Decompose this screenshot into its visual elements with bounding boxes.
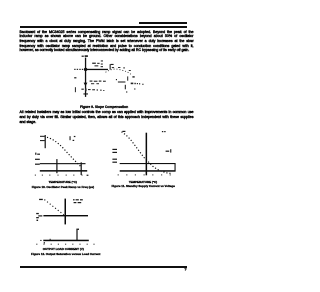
fig12 v2 top dot: [78, 229, 79, 230]
footer rule: [20, 266, 188, 268]
fig11 bottom axis: [120, 170, 176, 172]
fig11 dotted curve: [122, 132, 171, 174]
fig11 top-right dots: [162, 131, 166, 132]
fig12 left label marks: [36, 213, 39, 221]
ramp waveform sketch: [118, 67, 131, 71]
figure 9 slope compensation schematic: [0, 0, 207, 292]
node label 4.0V at top of vertical wire: [82, 55, 88, 57]
fig11 top-left dash: [122, 131, 125, 132]
fig11 x tick labels: [118, 174, 171, 175]
fig12 caption: [31, 252, 100, 256]
fig10 caption: [32, 185, 94, 189]
ramp input pin symbol: [110, 64, 115, 70]
value text row (2.4V etc.): [90, 81, 106, 85]
fig10 in-plot legend marks: [70, 136, 76, 141]
timing capacitor network: [116, 79, 127, 93]
graph figure 12: [0, 0, 207, 292]
fig12 vertical line v2: [76, 229, 77, 241]
node junction dot: [84, 68, 87, 71]
paragraph 2: [20, 110, 194, 124]
fig12 bottom axis: [43, 240, 89, 242]
capacitor label RT/CT: [127, 76, 143, 89]
fig12 below-axis dot: [44, 242, 45, 243]
fig10 inner horizontal gridline: [40, 163, 86, 164]
fig12 top-left dash: [39, 199, 43, 200]
fig11 inner horizontal gridline: [120, 163, 176, 164]
fig12 horizontal line: [43, 215, 88, 216]
fig10 x tick labels: [35, 175, 89, 176]
fig11 right edge tick: [175, 164, 176, 171]
page number 7: [0, 0, 207, 292]
fig10 vertical gridline v2: [81, 162, 82, 175]
graph figure 10: [0, 0, 207, 292]
horizontal wire to ramp input: [87, 69, 109, 70]
figure 9 caption: [80, 105, 128, 109]
header part-number bar: [139, 22, 187, 24]
fig12 x-axis label: [43, 247, 84, 251]
fig11 left tick labels: [112, 149, 117, 163]
fig12 axis left dot: [40, 240, 41, 241]
fig10 y-axis segment: [45, 135, 46, 148]
fig12 axis up-tick: [50, 239, 51, 240]
fig10 left tick labels: [35, 153, 40, 165]
current source arrow on vertical wire: [84, 83, 88, 87]
paragraph 1: [20, 30, 194, 54]
fig12 legend text rows: [73, 199, 83, 203]
dashed signal arc: [106, 69, 132, 75]
fig11 x-axis label: [129, 180, 157, 184]
left pin stub: [74, 77, 76, 78]
ground stub bottom: [83, 93, 88, 94]
vertical wire (oscillator node): [85, 58, 86, 97]
fig11 right legend mark: [166, 149, 172, 152]
fig12 vertical line v1: [65, 199, 67, 225]
resistor label text above wire: [92, 60, 103, 67]
dotted lead-in wire left of node: [74, 69, 83, 70]
fig12 x tick labels: [36, 244, 94, 245]
fig11 main vertical line: [146, 133, 148, 176]
fig12 left tick dash: [38, 215, 42, 216]
fig11 caption: [112, 184, 175, 188]
lower pin lead left: [75, 87, 76, 92]
fig10 y-axis ticks: [40, 136, 45, 137]
graph figure 11: [0, 0, 207, 292]
fig10 dotted curve: [47, 137, 81, 166]
fig12 dotted diagonal: [44, 200, 63, 215]
lower value text row: [81, 88, 104, 91]
header rule: [20, 26, 188, 28]
fig10 x-axis label: [49, 180, 77, 184]
fig10 bottom axis: [40, 170, 87, 172]
fig10 vertical gridline v1: [56, 159, 57, 173]
